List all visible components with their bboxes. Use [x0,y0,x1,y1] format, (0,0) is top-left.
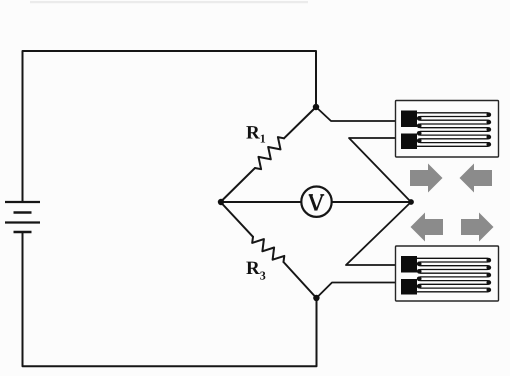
resistor R3 zigzag [252,237,284,262]
wire: R1 to top node [284,107,316,138]
tension arrow right (bottom right) [461,213,494,242]
strain gauge 2 turn blobs [417,258,491,292]
wire: bottom rail from battery to bottom node rise [23,233,317,367]
strain gauge 2 body [396,246,499,301]
faint top rule (edge of figure above) [30,1,308,3]
strain gauge 2 pad 2 [401,279,417,295]
resistor R3 leg wire (left node to zigzag) [221,202,254,237]
wire: left node to voltmeter [221,201,302,203]
strain gauge 1 pad 2 [401,134,417,150]
resistor R1 leg wire (left node to zigzag) [221,168,256,202]
strain gauge 1 serpentine grid [416,113,489,147]
compression arrow right (top left) [410,164,443,193]
battery B1 short plate 1 [14,211,32,214]
node: top bridge node [313,104,319,110]
strain gauge 1 body [396,101,499,158]
wire: upper gauge pad 2 to right node [349,138,411,202]
battery B1 short plate 2 [14,231,32,234]
wire: R3 to bottom node [284,262,317,298]
strain gauge 1 turn blobs [417,112,491,146]
strain gauge 2 serpentine grid [416,258,489,292]
wire: top node to upper gauge pad 1 [316,107,402,121]
compression arrow left (top right) [460,164,493,193]
voltmeter V circle [301,187,331,217]
node: bottom bridge node [313,295,319,301]
tension arrow left (bottom left) [411,213,444,242]
voltmeter V letter [309,195,325,211]
node: right bridge node [408,199,414,205]
resistor R1 zigzag [255,137,284,169]
strain gauge 1 pad 1 [401,111,417,128]
wire: voltmeter to right node [332,201,411,203]
battery B1 long plate 2 [5,221,40,223]
node: left bridge node [218,199,224,205]
wire: right node to lower gauge pad 1 [346,202,411,265]
strain gauge 2 pad 1 [401,256,417,273]
wire: bottom node to lower gauge pad 2 [316,283,402,299]
battery B1 long plate 1 [5,201,40,203]
wire: top rail from battery to top node drop [23,51,317,202]
